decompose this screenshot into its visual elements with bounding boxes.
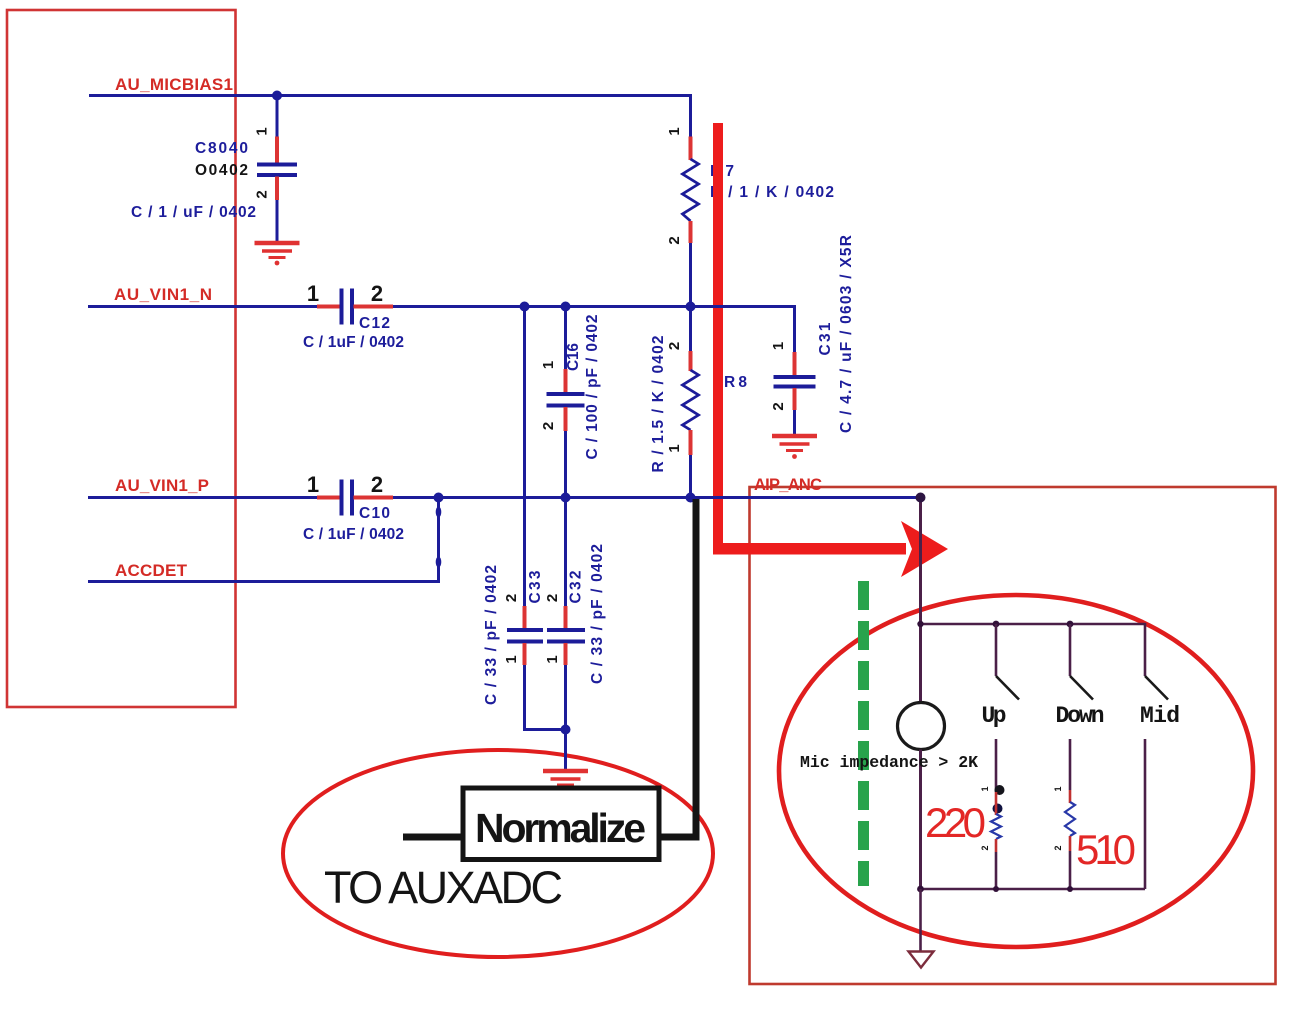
svg-text:2: 2 [371, 281, 383, 306]
svg-text:AU_MICBIAS1: AU_MICBIAS1 [115, 75, 233, 94]
wire C33 branch lower [525, 665, 566, 730]
wire C33 branch upper [523, 307, 526, 607]
svg-text:1: 1 [544, 655, 561, 663]
svg-text:C / 100 / pF / 0402: C / 100 / pF / 0402 [584, 315, 601, 460]
capacitor C32 [547, 606, 585, 665]
wire AU_VIN1_N right [393, 307, 795, 353]
wire bottom rail [921, 888, 1146, 891]
switch Up blade [996, 676, 1019, 700]
svg-text:2: 2 [980, 845, 990, 850]
svg-text:C / 1 / uF / 0402: C / 1 / uF / 0402 [131, 204, 256, 221]
svg-text:2: 2 [666, 342, 683, 350]
switch Mid blade [1145, 676, 1168, 700]
wire AU_MICBIAS1 [89, 96, 691, 137]
ground below C8040 [255, 243, 300, 265]
svg-text:1: 1 [503, 655, 520, 663]
frame: right red block boundary (AIP_ANC block) [750, 487, 1276, 984]
switch Down stub [1069, 624, 1072, 676]
capacitor C31 [774, 352, 816, 434]
solder blob upper on Up branch [995, 785, 1005, 795]
svg-text:C / 1uF / 0402: C / 1uF / 0402 [303, 334, 404, 351]
node ACCDET riser mark upper [436, 507, 442, 518]
svg-text:2: 2 [666, 236, 683, 244]
svg-text:C32: C32 [568, 571, 585, 604]
solder blob lower on Up branch [993, 804, 1003, 814]
svg-text:R / 1.5 / K / 0402: R / 1.5 / K / 0402 [650, 336, 667, 473]
svg-text:TO AUXADC: TO AUXADC [324, 862, 563, 913]
node AU_MICBIAS1/C8040 junction [272, 91, 282, 101]
svg-text:2: 2 [544, 594, 561, 602]
svg-text:R / 1 / K / 0402: R / 1 / K / 0402 [710, 184, 834, 201]
capacitor C12 [317, 289, 393, 325]
frame: left red block boundary [7, 10, 236, 707]
wire Down branch lower [1069, 739, 1072, 790]
svg-text:C / 33 / pF / 0402: C / 33 / pF / 0402 [483, 565, 500, 705]
green dashed highlight line [858, 581, 869, 886]
svg-text:1: 1 [1053, 786, 1063, 791]
svg-text:C10: C10 [359, 505, 390, 522]
wire C16 to VIN1_P [564, 431, 567, 606]
capacitor C33 [507, 606, 543, 665]
svg-text:AU_VIN1_P: AU_VIN1_P [115, 476, 209, 495]
switch Down blade [1070, 676, 1093, 700]
svg-text:AIP_ANC: AIP_ANC [754, 476, 822, 494]
svg-text:O0402: O0402 [195, 162, 248, 179]
node VIN1_P/AIP_ANC junction [916, 493, 926, 503]
wire AU_VIN1_P right [393, 496, 921, 499]
svg-text:C / 33 / pF / 0402: C / 33 / pF / 0402 [589, 544, 606, 684]
resistor R8 [683, 307, 699, 498]
wire Mid branch lower [1144, 739, 1147, 889]
svg-text:2: 2 [540, 422, 557, 430]
svg-text:1: 1 [980, 786, 990, 791]
node top rail tee [917, 621, 923, 627]
wire AU_VIN1_N left [88, 305, 317, 308]
highlight arrowhead [901, 521, 948, 577]
node top rail / Down [1067, 621, 1074, 628]
svg-text:Up: Up [982, 703, 1007, 729]
wire C32 to ground join [564, 665, 567, 769]
node bottom rail / Up [993, 886, 999, 892]
node bottom rail / Down [1067, 886, 1073, 892]
svg-text:C31: C31 [817, 322, 834, 355]
wire C16/C32 branch upper [564, 307, 567, 370]
svg-text:1: 1 [666, 127, 683, 135]
highlight bar horizontal (thick red) [713, 543, 906, 555]
wire mic to bottom rail [919, 750, 922, 890]
node ACCDET riser mark lower [436, 557, 442, 568]
node VIN1_N/C33 [520, 302, 530, 312]
svg-text:1: 1 [770, 342, 787, 350]
ground below C31 [772, 436, 817, 459]
node VIN1_P/C16-C32 [561, 493, 571, 503]
wire Up branch lower [995, 739, 998, 792]
svg-text:C12: C12 [359, 315, 390, 332]
ground below C32/C33 [543, 771, 588, 785]
node bottom rail / main [917, 886, 924, 893]
svg-text:C8040: C8040 [195, 140, 248, 157]
svg-text:1: 1 [307, 281, 319, 306]
svg-text:1: 1 [254, 127, 271, 135]
wire C8040 drop [276, 96, 279, 137]
annotation ellipse around mic network [779, 595, 1253, 947]
node VIN1_P/R8 [686, 493, 696, 503]
svg-text:Mid: Mid [1140, 703, 1180, 729]
svg-text:2: 2 [503, 594, 520, 602]
Normalize box left stub [403, 834, 463, 841]
wire ACCDET [88, 498, 439, 582]
wire to ground triangle [919, 889, 922, 952]
svg-text:2: 2 [371, 472, 383, 497]
svg-text:1: 1 [540, 361, 557, 369]
svg-text:220: 220 [925, 799, 986, 846]
node C33/C32 ground join [561, 725, 571, 735]
svg-text:C16: C16 [565, 343, 582, 371]
svg-text:1: 1 [307, 472, 319, 497]
wire to AUXADC (thick black) [659, 499, 696, 837]
node VIN1_N/R7-R8 [686, 302, 696, 312]
svg-text:2: 2 [770, 402, 787, 410]
node VIN1_N/C16 [561, 302, 571, 312]
annotation ellipse around TO AUXADC [283, 750, 713, 957]
mic circle [898, 703, 945, 750]
svg-text:C / 4.7 / uF / 0603 / X5R: C / 4.7 / uF / 0603 / X5R [838, 235, 855, 433]
svg-text:C / 1uF / 0402: C / 1uF / 0402 [303, 526, 404, 543]
ground triangle [909, 952, 934, 968]
svg-text:Normalize: Normalize [475, 805, 646, 851]
Normalize box [463, 788, 659, 860]
svg-text:Down: Down [1056, 703, 1105, 729]
capacitor C10 [317, 480, 393, 516]
svg-text:C33: C33 [527, 570, 544, 603]
svg-text:510: 510 [1076, 826, 1136, 873]
wire AIP_ANC main (purple) [919, 498, 922, 704]
capacitor C16 [547, 369, 585, 431]
highlight bar vertical (thick red) [713, 123, 723, 555]
capacitor C8040 [257, 137, 297, 242]
node top rail / Up [993, 621, 1000, 628]
resistor R7 [683, 137, 699, 307]
svg-text:2: 2 [254, 190, 271, 198]
svg-text:ACCDET: ACCDET [115, 561, 188, 580]
svg-text:AU_VIN1_N: AU_VIN1_N [114, 285, 212, 304]
svg-text:Mic impedance > 2K: Mic impedance > 2K [800, 753, 978, 772]
svg-text:2: 2 [1053, 845, 1063, 850]
resistor 510 [1065, 790, 1075, 889]
svg-text:1: 1 [666, 444, 683, 452]
switch Up stub [995, 624, 998, 676]
wire top rail [921, 624, 1146, 676]
wire AU_VIN1_P left [88, 496, 317, 499]
resistor 220 [991, 792, 1001, 889]
node VIN1_P/ACCDET riser [434, 493, 444, 503]
